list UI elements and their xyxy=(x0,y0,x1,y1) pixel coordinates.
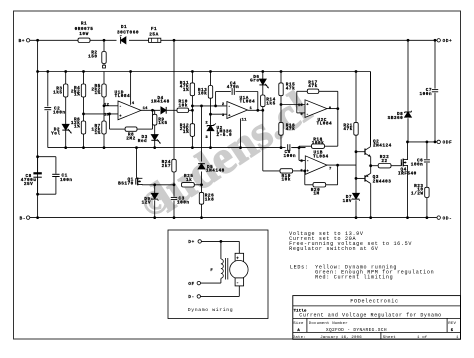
diode D8 SB360 xyxy=(407,40,409,111)
LED D6 xyxy=(261,70,264,73)
svg-text:47k: 47k xyxy=(286,86,295,91)
svg-text:FODelectronic: FODelectronic xyxy=(350,299,398,305)
wire armature to D- xyxy=(238,286,240,297)
op-amp U1D xyxy=(118,101,141,120)
dynamo wiring box xyxy=(168,230,268,319)
wire to U1D pin13 xyxy=(84,113,119,115)
svg-text:12V: 12V xyxy=(142,201,151,206)
svg-text:6: 6 xyxy=(300,169,303,173)
wire U1A output xyxy=(248,109,263,111)
resistor R24 xyxy=(173,40,175,159)
wire D+ line xyxy=(201,240,239,242)
svg-text:Gre: Gre xyxy=(250,79,259,84)
op-amp U2C xyxy=(305,100,327,118)
wire bottom rail xyxy=(30,217,437,219)
svg-text:IRF540: IRF540 xyxy=(398,171,417,176)
svg-text:1%: 1% xyxy=(74,93,80,98)
wire U1D pin4 supply xyxy=(130,72,132,105)
node D8 top xyxy=(407,39,410,42)
resistor R17 feedback xyxy=(297,112,305,114)
wire Q3 collector xyxy=(370,183,372,217)
svg-text:10W: 10W xyxy=(79,32,88,37)
resistor R5 xyxy=(103,72,105,85)
svg-text:3: 3 xyxy=(222,114,225,118)
svg-text:2k7: 2k7 xyxy=(162,164,171,169)
node B+ branch xyxy=(36,39,39,42)
svg-text:1k: 1k xyxy=(186,178,192,183)
capacitor C5 xyxy=(287,144,289,151)
svg-text:D-: D- xyxy=(188,294,195,300)
svg-text:1 of: 1 of xyxy=(417,335,428,340)
svg-text:1k5: 1k5 xyxy=(53,90,62,95)
wire Q2 collector xyxy=(370,72,372,147)
node field top xyxy=(220,240,223,243)
node R7 bus xyxy=(103,146,106,149)
svg-text:TL084: TL084 xyxy=(317,122,333,127)
svg-text:Red: Red xyxy=(138,139,147,144)
svg-text:7: 7 xyxy=(329,168,332,172)
wire pin3 net xyxy=(211,113,227,115)
svg-text:10k: 10k xyxy=(179,103,188,108)
node B- branch xyxy=(36,216,39,219)
resistor R9 xyxy=(153,109,155,111)
capacitor C8 xyxy=(37,157,39,173)
svg-text:47k: 47k xyxy=(286,127,295,132)
node U1B fb xyxy=(336,164,339,167)
node C8 bottom xyxy=(36,193,39,196)
node R9 top xyxy=(151,109,154,112)
svg-text:18V: 18V xyxy=(343,199,352,204)
wire U2C output xyxy=(327,108,338,110)
svg-text:5: 5 xyxy=(300,160,303,164)
svg-text:-: - xyxy=(306,113,308,117)
svg-text:2N4124: 2N4124 xyxy=(373,144,392,149)
resistor R20 feedback xyxy=(337,165,339,185)
svg-text:Date:: Date: xyxy=(293,336,306,340)
svg-text:3: 3 xyxy=(205,136,208,140)
field coil F xyxy=(220,241,222,259)
svg-text:10: 10 xyxy=(298,104,304,108)
watermark ludens.cl xyxy=(143,82,320,223)
terminal ODF xyxy=(437,140,440,143)
transistor Q2 xyxy=(355,150,358,153)
zener D9 xyxy=(153,183,156,186)
capacitor C4 feedback xyxy=(215,92,217,106)
node C8 top xyxy=(36,155,39,158)
svg-text:2: 2 xyxy=(222,103,225,107)
diode D1 xyxy=(121,37,126,44)
wire U1B pin5 xyxy=(298,148,300,161)
svg-text:LEDs:: LEDs: xyxy=(290,265,309,271)
node R5-R7 tap xyxy=(103,104,106,107)
svg-text:OD-: OD- xyxy=(443,216,453,222)
capacitor C3 xyxy=(173,185,175,197)
title block company row xyxy=(293,305,461,307)
svg-text:Size: Size xyxy=(293,321,304,326)
svg-text:ODF: ODF xyxy=(443,140,453,146)
resistor R12 xyxy=(190,124,194,137)
transistor Q1 xyxy=(135,146,138,149)
svg-text:D+: D+ xyxy=(188,239,195,245)
node bus left xyxy=(36,70,39,73)
op-amp U1B xyxy=(305,156,327,175)
resistor R3 xyxy=(64,70,67,73)
svg-text:1k5: 1k5 xyxy=(266,101,275,106)
svg-text:2M2: 2M2 xyxy=(126,136,135,141)
svg-text:1%: 1% xyxy=(183,88,189,93)
node F1 out xyxy=(173,39,176,42)
svg-text:OD+: OD+ xyxy=(443,38,453,44)
diode D4 xyxy=(161,107,166,114)
svg-text:-: - xyxy=(228,105,230,109)
svg-text:-: - xyxy=(236,281,239,286)
node C7 top xyxy=(434,39,437,42)
wire pin2 net xyxy=(192,105,227,107)
svg-text:OF: OF xyxy=(188,281,195,287)
svg-text:Yel: Yel xyxy=(51,132,60,137)
wire base column xyxy=(355,152,357,179)
LED D3 xyxy=(151,135,158,141)
wire U1A pin11 xyxy=(240,119,242,148)
node emitter R22 xyxy=(369,164,372,167)
svg-text:D1: D1 xyxy=(121,25,127,30)
svg-text:F: F xyxy=(210,269,213,273)
node Q4 drain xyxy=(406,141,409,144)
wire to U2C pin10 xyxy=(281,104,305,106)
svg-text:Regulator switchon at 6V: Regulator switchon at 6V xyxy=(289,246,379,252)
svg-text:1N4148: 1N4148 xyxy=(206,169,225,174)
svg-text:47k: 47k xyxy=(308,84,317,89)
svg-text:Dynamo wiring: Dynamo wiring xyxy=(188,307,233,313)
resistor R10 xyxy=(177,108,189,112)
svg-text:Red: Current limiting: Red: Current limiting xyxy=(315,275,393,281)
svg-text:4: 4 xyxy=(132,102,135,106)
node R6 bus xyxy=(82,146,85,149)
wire gate Q4 xyxy=(400,165,402,167)
svg-text:Document Number: Document Number xyxy=(309,321,348,326)
LED D2 xyxy=(62,124,69,130)
wire C8 col xyxy=(37,157,39,218)
node U2C out xyxy=(336,107,339,110)
svg-text:150: 150 xyxy=(88,55,97,60)
svg-text:25A: 25A xyxy=(149,32,158,37)
svg-text:30CT060: 30CT060 xyxy=(117,30,139,35)
resistor R23 xyxy=(425,187,429,197)
svg-text:11: 11 xyxy=(242,118,248,122)
wire C5 to R18 xyxy=(291,147,305,149)
node R14 bottom xyxy=(261,109,264,112)
svg-text:B+: B+ xyxy=(19,38,26,44)
node D5 column top xyxy=(200,105,203,108)
svg-text:Sheet: Sheet xyxy=(383,335,396,340)
svg-text:100n: 100n xyxy=(411,163,424,168)
wire U2C out to R18 xyxy=(337,109,339,147)
capacitor C6 xyxy=(426,142,428,159)
svg-text:1: 1 xyxy=(456,336,459,340)
terminal OD- xyxy=(437,216,440,219)
diode D5 xyxy=(198,164,205,169)
svg-text:TL084: TL084 xyxy=(313,154,329,159)
resistor R25 xyxy=(182,183,195,187)
resistor R13 xyxy=(209,70,212,73)
wire D5 column xyxy=(201,106,203,162)
svg-text:TL084: TL084 xyxy=(240,100,256,105)
wire upper bus xyxy=(38,71,371,73)
svg-text:BS170: BS170 xyxy=(118,181,134,186)
resistor R7 xyxy=(102,121,106,134)
terminal OD+ xyxy=(437,39,440,42)
node U1B pin5 drop xyxy=(298,146,301,149)
svg-text:REV: REV xyxy=(448,322,456,326)
capacitor C7 xyxy=(434,40,436,88)
title block frame xyxy=(293,296,461,340)
svg-text:2N4403: 2N4403 xyxy=(373,179,392,184)
transistor Q3 xyxy=(355,177,358,180)
svg-text:Current and Voltage Regulator: Current and Voltage Regulator for Dynamo xyxy=(299,313,441,319)
MOSFET Q4 xyxy=(400,159,402,165)
node R25-D5-R26 xyxy=(200,183,203,186)
node R2 top xyxy=(103,39,106,42)
op-amp U1A xyxy=(227,102,248,119)
svg-text:10k: 10k xyxy=(282,178,291,183)
node R4-R6 tap xyxy=(82,113,85,116)
resistor R2 xyxy=(103,40,105,51)
node D2 bus xyxy=(64,146,67,149)
svg-text:1k5: 1k5 xyxy=(158,121,167,126)
wire emitters xyxy=(370,157,372,174)
svg-text:1%: 1% xyxy=(95,91,101,96)
wire to U1D pin12 xyxy=(104,105,118,107)
svg-text:470n: 470n xyxy=(227,85,240,90)
dynamo armature xyxy=(238,241,240,253)
resistor R6 xyxy=(81,121,85,134)
svg-text:100n: 100n xyxy=(419,92,432,97)
resistor R22 xyxy=(371,165,379,167)
resistor R21 xyxy=(355,70,358,73)
svg-text:1/2W: 1/2W xyxy=(411,191,424,196)
resistor R19 xyxy=(263,170,280,172)
svg-text:100n: 100n xyxy=(53,111,66,116)
svg-text:1%: 1% xyxy=(74,124,80,129)
resistor R26 xyxy=(201,185,203,193)
node R11 wire1 xyxy=(191,105,194,108)
svg-text:-: - xyxy=(119,105,121,109)
svg-text:2: 2 xyxy=(205,121,208,125)
svg-text:47k: 47k xyxy=(343,127,352,132)
reference U2 LM336 xyxy=(210,114,212,125)
svg-text:100n: 100n xyxy=(177,201,190,206)
node C6 top xyxy=(426,141,429,144)
zener D7 xyxy=(355,178,357,193)
svg-text:B-: B- xyxy=(20,216,27,222)
resistor R1 xyxy=(78,38,90,42)
svg-text:10k: 10k xyxy=(198,92,207,97)
svg-text:1N4148: 1N4148 xyxy=(151,100,170,105)
resistor R16 xyxy=(279,122,283,135)
node R11 wire2 xyxy=(191,109,194,112)
svg-text:Z-5.0: Z-5.0 xyxy=(217,133,233,138)
svg-text:12: 12 xyxy=(104,104,110,108)
fuse F1 xyxy=(149,38,161,42)
node R15-R16 tap xyxy=(280,103,283,106)
node pin3 net xyxy=(209,113,212,116)
svg-text:100k: 100k xyxy=(312,141,325,146)
wire riser to R19 xyxy=(262,110,264,171)
svg-text:1k8: 1k8 xyxy=(205,197,214,202)
svg-text:-: - xyxy=(307,160,309,164)
wire top rail xyxy=(30,39,78,41)
capacitor C2 xyxy=(46,70,49,73)
svg-text:100n: 100n xyxy=(60,178,73,183)
svg-text:1%: 1% xyxy=(183,130,189,135)
feedback R8 of U1D xyxy=(109,114,111,129)
svg-text:SB360: SB360 xyxy=(388,116,404,121)
resistor R18 xyxy=(299,145,312,147)
svg-text:January 16, 2006: January 16, 2006 xyxy=(320,335,362,340)
capacitor C1 xyxy=(38,156,56,158)
wire U1B output xyxy=(327,164,356,166)
svg-text:1%: 1% xyxy=(95,131,101,136)
wire R10 out xyxy=(189,109,193,111)
svg-text:25V: 25V xyxy=(24,182,33,187)
wire ODF line xyxy=(408,141,437,143)
wire mid bus xyxy=(48,147,286,149)
svg-text:22: 22 xyxy=(381,159,387,164)
wire U1D output xyxy=(141,109,160,111)
svg-text:1M: 1M xyxy=(313,192,319,197)
wire field bottom to OF xyxy=(220,278,222,283)
wire B+ sense drop xyxy=(37,40,39,156)
resistor R14 xyxy=(262,85,264,95)
wire bus to Q2 collector xyxy=(370,72,372,146)
wire D4 to R10 xyxy=(167,109,177,111)
svg-text:8: 8 xyxy=(329,107,332,111)
resistor R4 xyxy=(82,70,85,73)
wire Q1 line to R24 xyxy=(155,184,174,186)
svg-text:100n: 100n xyxy=(284,154,297,159)
resistor R15 xyxy=(280,70,283,73)
svg-text:TL084: TL084 xyxy=(115,94,131,99)
resistor R11 xyxy=(191,70,194,73)
svg-text:9: 9 xyxy=(300,113,303,117)
